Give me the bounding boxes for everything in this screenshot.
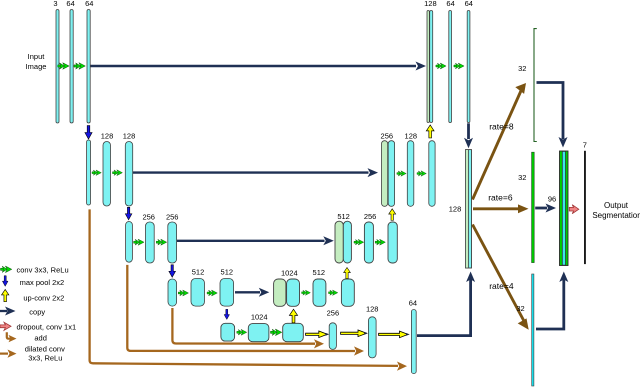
legend arrow upconv [2, 289, 9, 301]
bar conv 1024 [283, 323, 304, 341]
bar conv 64 [449, 11, 452, 123]
svg-text:64: 64 [85, 0, 93, 8]
arrow conv L4a [178, 290, 188, 296]
bar conv D2c [429, 141, 435, 207]
svg-text:128: 128 [405, 131, 418, 140]
arrowhead copy L3 [323, 236, 334, 245]
arrow conv D4a [302, 290, 311, 295]
bar conv 64 out [467, 11, 470, 123]
svg-text:Input: Input [28, 52, 46, 61]
arrow dropout conv1x1 (red) [569, 205, 579, 214]
svg-text:max pool 2x2: max pool 2x2 [20, 278, 65, 287]
bar copy cyan half [343, 221, 351, 263]
wire navy bot32 to 96 [536, 277, 564, 329]
bar copy cyan half [430, 11, 433, 123]
bar conv 256 [364, 222, 373, 263]
svg-text:128: 128 [424, 0, 437, 8]
wire copy L2 [133, 171, 369, 173]
bar conv 256 [168, 222, 177, 263]
arrow conv L3b [156, 239, 166, 245]
bar 32 top (bracket) [534, 29, 537, 142]
svg-text:256: 256 [364, 212, 377, 221]
bar upconv green half [427, 11, 429, 123]
bar concat 96 [560, 151, 569, 266]
svg-text:64: 64 [446, 0, 454, 8]
bar cascade 256 [329, 323, 336, 350]
arrowhead rate=4 [518, 318, 529, 329]
svg-text:512: 512 [337, 212, 350, 221]
wire dilated rate=6 (brown) [473, 207, 519, 210]
bar pooled 128 [126, 222, 133, 263]
wire add path from L2 (brown) [90, 209, 398, 366]
arrow conv D2b [417, 171, 426, 176]
bar conv 128 [407, 141, 414, 207]
bar input 3 [56, 10, 59, 124]
svg-text:64: 64 [465, 0, 473, 8]
arrow maxpool L3-L4 [169, 265, 176, 278]
svg-text:add: add [34, 333, 47, 342]
svg-text:copy: copy [29, 307, 45, 316]
svg-text:conv 3x3, ReLu: conv 3x3, ReLu [17, 265, 69, 274]
arrowhead rate=8 [515, 83, 526, 94]
arrowhead down into 96 [559, 137, 568, 148]
arrow conv L2b [113, 170, 123, 176]
svg-text:256: 256 [142, 213, 155, 222]
svg-text:128: 128 [101, 131, 114, 140]
arrow conv L1a [58, 63, 69, 70]
bar upconv green half [382, 141, 388, 207]
bar cascade 128 [368, 317, 376, 358]
arrowhead up into tall128 [466, 272, 475, 283]
svg-text:rate=4: rate=4 [489, 281, 514, 291]
wire navy top32 to 96 [537, 83, 564, 140]
arrow upconv right to 128 [341, 330, 367, 337]
bar conv 128 [125, 142, 132, 207]
bar upconv green half [335, 221, 343, 263]
legend arrow add [7, 332, 11, 338]
bar copy cyan half [388, 141, 394, 207]
legend arrow dilated [0, 353, 8, 355]
bar conv 128 [103, 142, 111, 207]
bar pooled 512 [221, 323, 235, 341]
svg-text:Output: Output [604, 201, 629, 210]
wire copy L4 [235, 291, 260, 293]
wire dilated rate=8 (brown) [473, 89, 523, 200]
arrow conv D3a [354, 239, 364, 245]
svg-text:128: 128 [366, 305, 379, 314]
arrow upconv L4-L3 [344, 268, 351, 279]
arrow upconv L5-L4 [289, 309, 297, 323]
svg-text:512: 512 [192, 268, 205, 277]
arrow upconv right to 256 [306, 331, 328, 338]
arrow navy mid32 to 96 [535, 207, 547, 210]
arrow conv L5b [271, 329, 282, 336]
svg-text:64: 64 [409, 299, 417, 308]
arrow conv L5a [237, 329, 247, 335]
arrow conv L4b [207, 290, 217, 296]
wire add path from L4 (brown) [172, 308, 315, 344]
arrowhead copy L1 [416, 62, 427, 71]
svg-text:256: 256 [381, 131, 394, 140]
bar copy cyan half [287, 279, 300, 306]
svg-text:Segmentation: Segmentation [592, 211, 640, 220]
arrowhead add to 256 bar [314, 339, 324, 348]
arrow maxpool L2-L3 [125, 207, 132, 220]
arrow conv L1b [74, 63, 85, 70]
arrow conv D1b [454, 63, 464, 69]
bar 32 bottom [532, 274, 534, 386]
svg-text:7: 7 [583, 141, 587, 150]
arrow conv L2a [92, 170, 101, 175]
arrow upconv L2-L1 [426, 125, 434, 138]
svg-text:256: 256 [166, 213, 179, 222]
arrow conv D3b [375, 239, 385, 245]
svg-text:256: 256 [327, 308, 340, 317]
bar conv 512 [220, 279, 234, 307]
svg-text:rate=8: rate=8 [489, 121, 514, 131]
svg-text:dropout, conv 1x1: dropout, conv 1x1 [17, 323, 77, 332]
wire copy L1 [90, 65, 416, 67]
arrowhead add to 128 bar [354, 346, 364, 355]
bar pooled 64 [87, 140, 91, 205]
bar pooled 256 [168, 279, 177, 306]
bar conv 1024 [248, 324, 269, 342]
arrow navy down from decoder L1 to tall128 [467, 123, 470, 139]
svg-text:64: 64 [66, 0, 74, 8]
arrow upconv right to 64 [379, 331, 408, 338]
arrowhead up into 96 [559, 272, 568, 283]
legend arrow conv [1, 266, 12, 273]
bar output 7 [584, 151, 586, 264]
bar 32 middle [532, 152, 535, 262]
bar upconv green half [274, 279, 286, 306]
svg-text:3: 3 [53, 0, 57, 8]
arrowhead rate=6 [518, 204, 529, 213]
arrow conv D1a [436, 63, 446, 69]
wire navy elbow 64bar to tall128 [417, 276, 471, 336]
svg-text:128: 128 [449, 204, 462, 213]
svg-text:1024: 1024 [281, 268, 298, 277]
svg-text:32: 32 [518, 173, 526, 182]
arrowhead add to 64 bar [397, 362, 407, 371]
svg-text:dilated conv: dilated conv [25, 345, 65, 354]
legend arrow dropout [0, 322, 11, 330]
wire add path from L3 (brown) [127, 265, 355, 351]
bar tall concat 128 [466, 150, 472, 268]
svg-text:128: 128 [123, 131, 136, 140]
bar cascade 64 [411, 310, 416, 374]
svg-text:96: 96 [548, 195, 556, 204]
svg-text:32: 32 [518, 64, 526, 73]
arrow conv D2a [397, 171, 406, 176]
bar conv D3c [388, 222, 397, 263]
bar conv 64 [70, 10, 73, 124]
arrowhead copy L2 [368, 168, 379, 177]
svg-text:Image: Image [26, 62, 47, 71]
svg-text:512: 512 [313, 268, 326, 277]
arrow conv L3a [134, 239, 144, 245]
svg-text:32: 32 [516, 304, 524, 313]
arrow maxpool L1-L2 [85, 126, 92, 140]
arrow upconv L3-L2 [389, 209, 396, 221]
arrow maxpool L4-L5 [224, 309, 229, 319]
wire dilated rate=4 (brown) [473, 225, 525, 323]
svg-text:rate=6: rate=6 [488, 193, 513, 203]
wire copy L3 [177, 240, 325, 242]
svg-text:3x3, ReLu: 3x3, ReLu [28, 354, 62, 363]
arrow conv D4b [329, 290, 338, 295]
bar conv D4c [341, 279, 354, 306]
arrowhead copy L4 [259, 288, 270, 297]
bar conv 512 [191, 279, 205, 307]
legend arrow maxpool [2, 276, 8, 287]
bar conv 512 [313, 279, 326, 306]
svg-text:512: 512 [221, 268, 234, 277]
bar conv 64 [87, 10, 90, 124]
bar conv 256 [146, 222, 155, 263]
svg-text:up-conv 2x2: up-conv 2x2 [23, 293, 64, 302]
legend arrow copy [0, 310, 7, 312]
svg-text:1024: 1024 [251, 312, 268, 321]
